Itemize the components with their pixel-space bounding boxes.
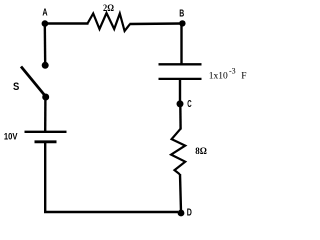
node A (42, 20, 49, 27)
wire switch top to A (44, 24, 47, 65)
capacitor C1 bottom plate (159, 78, 202, 80)
wire R2 to D (180, 174, 181, 212)
svg-text:C: C (187, 99, 191, 110)
wire capacitor to C (179, 80, 181, 104)
switch S blade (21, 67, 46, 97)
wire R1 to B (130, 22, 183, 25)
bottom wire (44, 211, 178, 213)
resistor R2 8ohm zigzag (171, 129, 185, 175)
svg-text:10V: 10V (4, 132, 18, 143)
svg-text:B: B (179, 9, 184, 20)
node C (177, 100, 184, 107)
capacitor C1 top plate (159, 63, 202, 65)
resistor R1 2ohm zigzag (88, 13, 131, 31)
battery B1 short plate (35, 140, 57, 143)
wire switch to battery (44, 97, 47, 131)
switch node bottom (42, 94, 49, 101)
wire battery to bottom (44, 142, 46, 213)
wire B to capacitor (180, 24, 182, 65)
svg-text:D: D (187, 208, 192, 219)
svg-text:A: A (42, 8, 47, 19)
svg-text:2Ω: 2Ω (103, 3, 114, 14)
node D (178, 210, 185, 217)
svg-text:S: S (13, 81, 19, 93)
battery B1 long plate (25, 131, 67, 133)
svg-text:8Ω: 8Ω (195, 146, 207, 157)
wire C to R2 (179, 104, 182, 130)
node B (179, 20, 185, 26)
wire A to R1 (45, 22, 89, 24)
switch node top (42, 62, 49, 69)
